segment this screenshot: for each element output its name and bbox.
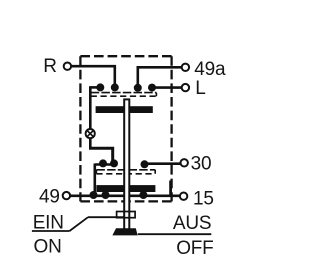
svg-text:30: 30: [191, 154, 212, 175]
terminal 30: [181, 159, 188, 166]
switch housing dashed box: [80, 56, 171, 201]
junction dot on 49 line left: [90, 191, 98, 199]
lever horizontal to shaft: [88, 216, 124, 218]
junction dot on 49 line right: [139, 191, 147, 199]
wire stub from contact dot1: [90, 86, 100, 89]
junction dot on 49 line mid: [102, 191, 110, 199]
contact dot2: [111, 83, 119, 91]
wire 49a terminal to corner: [138, 67, 182, 88]
terminal 49a: [182, 64, 189, 71]
svg-text:49: 49: [39, 187, 60, 208]
lower moving contact bar: [96, 185, 155, 192]
contact dot1: [96, 83, 104, 91]
svg-text:49a: 49a: [194, 59, 226, 80]
wire 49 to 15 line: [70, 195, 180, 198]
wire W2 down to 49 line: [94, 164, 97, 196]
svg-text:15: 15: [193, 188, 214, 209]
upper contact holder dashed bar: [91, 93, 157, 97]
svg-text:EIN: EIN: [33, 212, 64, 233]
lever EIN underline: [32, 230, 70, 232]
svg-text:OFF: OFF: [176, 238, 213, 259]
svg-text:AUS: AUS: [173, 213, 211, 234]
terminal 15: [180, 193, 187, 200]
shaft crossbar: [117, 212, 136, 218]
wire 30 terminal to contact C: [145, 162, 181, 165]
AUS underline line: [138, 233, 212, 235]
wire W1 down through lamp: [89, 86, 92, 148]
contact dot4: [148, 84, 156, 92]
upper moving contact bar: [96, 106, 153, 113]
svg-text:R: R: [43, 56, 57, 77]
wire branch to contact B: [89, 148, 113, 163]
terminal 49: [63, 192, 70, 199]
switch shaft: [124, 99, 129, 230]
svg-text:L: L: [195, 78, 205, 99]
shaft end cap: [112, 228, 137, 235]
contact dot A: [99, 159, 107, 167]
lamp symbol: [86, 129, 95, 138]
wire vertical near 15: [169, 181, 172, 196]
terminal R: [64, 62, 71, 69]
wire R terminal to corner: [71, 66, 115, 87]
wire through contacts A B: [95, 163, 118, 166]
terminal L: [182, 84, 189, 91]
contact dot3: [134, 84, 142, 92]
lever diagonal: [70, 217, 89, 231]
contact dot B: [110, 159, 118, 167]
contact dot C: [141, 160, 149, 168]
lower contact holder dashed bar: [96, 170, 155, 174]
wire L terminal to contact: [152, 86, 182, 89]
svg-text:ON: ON: [34, 236, 62, 257]
